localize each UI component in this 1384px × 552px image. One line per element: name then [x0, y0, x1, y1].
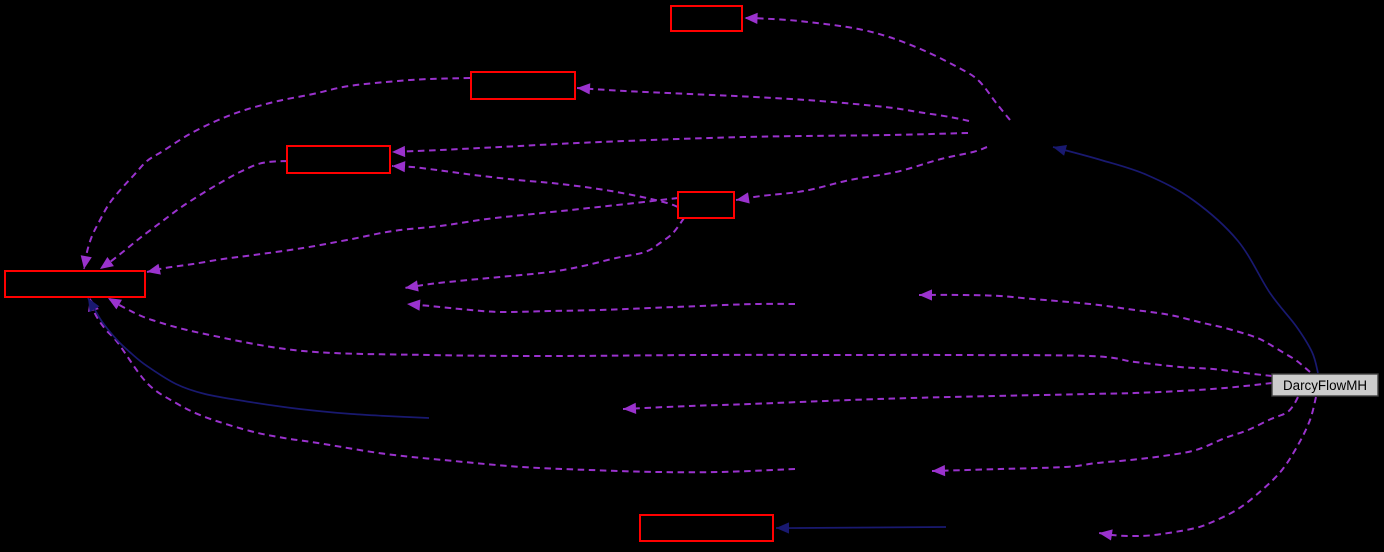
- node box5 red: [5, 271, 145, 297]
- edge G to C: [407, 300, 795, 313]
- edge DarcyFlowMH to B: [1099, 397, 1316, 541]
- edge DarcyFlowMH to G: [919, 289, 1310, 372]
- edge box3 to box5: [100, 161, 287, 269]
- edge box2 to box5: [81, 78, 470, 269]
- edge A to box1: [745, 13, 1011, 120]
- edge D to box5 inheritance: [88, 298, 429, 418]
- node box4 red: [678, 192, 734, 218]
- edge F to box5: [88, 298, 795, 472]
- node box2 red: [471, 72, 575, 99]
- edge A to box3: [392, 133, 968, 157]
- edge DarcyFlowMH to box5: [108, 298, 1272, 376]
- node box6 red: [640, 515, 773, 541]
- edge DarcyFlowMH to F: [932, 397, 1298, 476]
- node box3 red: [287, 146, 390, 173]
- node box1 red: [671, 6, 742, 31]
- edge B to box6 inheritance: [776, 522, 946, 533]
- svg-text:DarcyFlowMH: DarcyFlowMH: [1283, 378, 1367, 393]
- edge box4 to box5: [147, 198, 678, 275]
- edge DarcyFlowMH to D: [623, 383, 1272, 414]
- edge A to box4: [736, 147, 987, 204]
- node DarcyFlowMH current class grey: [1272, 374, 1378, 396]
- edge A to box2: [577, 83, 969, 121]
- edge DarcyFlowMH to A inheritance: [1053, 145, 1318, 373]
- edge box4 to box3: [392, 161, 678, 207]
- edge box4 to C: [405, 218, 684, 292]
